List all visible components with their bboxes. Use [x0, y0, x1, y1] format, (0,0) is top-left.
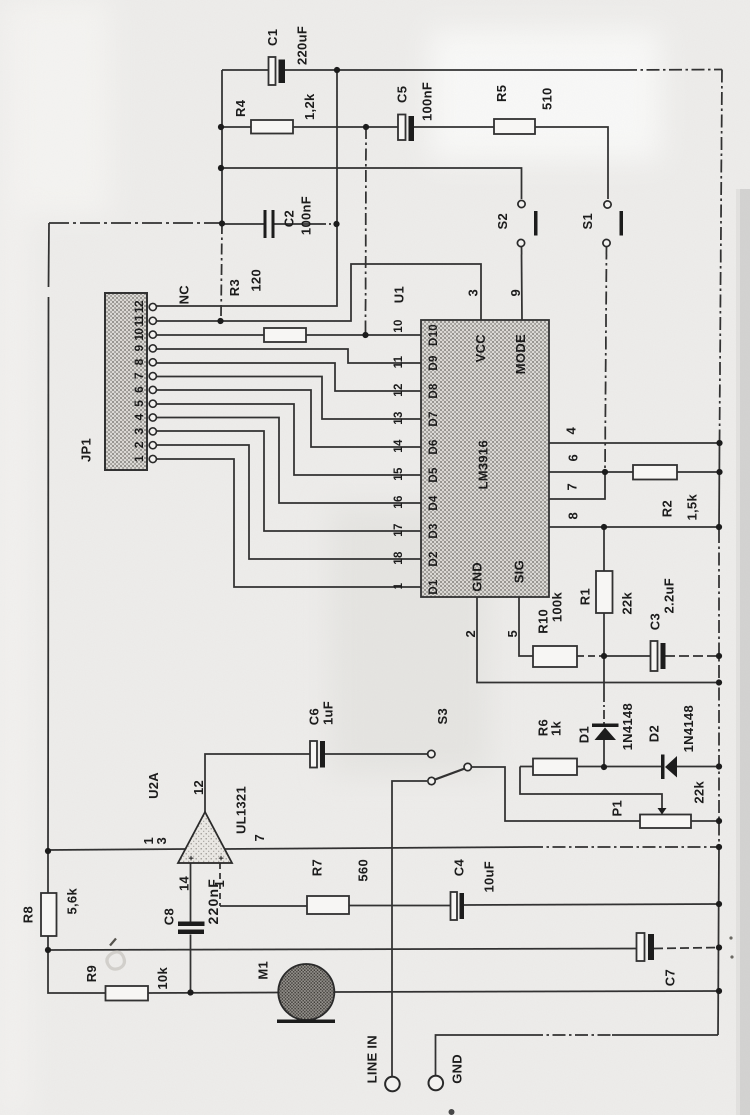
svg-text:S1: S1 — [580, 213, 595, 230]
resistor R8 vertical — [41, 893, 57, 936]
wire U1 pin6 row right of R2 — [677, 471, 720, 473]
wire P1 right to bus — [691, 820, 719, 822]
wire rail2 (portrait y=168) to S2 riser — [222, 168, 522, 199]
wire GND terminal riser and bottom rail — [436, 1035, 531, 1076]
svg-text:2: 2 — [132, 441, 146, 448]
wire top rail chain part to corner — [624, 69, 722, 72]
svg-text:D10: D10 — [428, 324, 440, 346]
wire net y=950 to C7 — [48, 949, 637, 951]
svg-text:4: 4 — [132, 414, 146, 421]
JP1 pin 8 circle — [149, 359, 156, 366]
svg-text:NC: NC — [177, 285, 192, 305]
capacitor C7 plate solid — [648, 934, 654, 960]
junction dot (190.5,992.5) — [187, 989, 193, 995]
wire U1 pin8 row — [549, 526, 719, 528]
svg-text:17: 17 — [393, 523, 405, 536]
capacitor C2 plate b — [272, 210, 275, 238]
wire junction down to R9 row — [48, 950, 105, 993]
svg-text:VCC: VCC — [473, 334, 488, 363]
svg-text:1uF: 1uF — [321, 701, 336, 725]
wire U1 pin6 row left of R2 — [549, 471, 633, 473]
wire opamp pin14 stub to C8 — [190, 863, 192, 922]
capacitor C2 plate a — [264, 210, 267, 238]
svg-text:D3: D3 — [428, 523, 440, 538]
resistor R2 — [633, 465, 677, 480]
svg-text:D4: D4 — [428, 495, 440, 511]
soft shadow patch center — [330, 505, 490, 775]
svg-text:GND: GND — [470, 562, 485, 592]
connector JP1 body — [105, 293, 147, 470]
wire R9 to C8 node to microphone — [148, 992, 278, 995]
scan artifact bottom fleck — [449, 1109, 455, 1115]
wire net y=848 left segment (opamp inputs 1/3) — [48, 849, 186, 850]
svg-text:+: + — [216, 855, 226, 861]
capacitor C5 plate — [398, 115, 406, 141]
wire right bus solid lower — [718, 845, 719, 1035]
svg-text:100nF: 100nF — [299, 196, 314, 235]
svg-text:1N4148: 1N4148 — [620, 703, 635, 750]
svg-text:560: 560 — [356, 859, 371, 882]
bright left margin of portrait page — [0, 0, 26, 1115]
svg-text:15: 15 — [393, 467, 405, 481]
capacitor C8 plate b — [178, 930, 204, 935]
svg-text:2: 2 — [463, 630, 478, 638]
svg-text:1: 1 — [132, 455, 146, 462]
svg-text:220nF: 220nF — [205, 878, 221, 924]
svg-text:1N4148: 1N4148 — [681, 705, 696, 752]
wire R6 to D2 node — [577, 766, 662, 768]
wire R8 bottom to junction — [47, 936, 49, 950]
svg-text:100nF: 100nF — [420, 82, 435, 121]
svg-text:3: 3 — [466, 289, 481, 297]
svg-text:C5: C5 — [395, 86, 410, 103]
junction dot (719,904) — [716, 901, 722, 907]
capacitor C8 plate a — [178, 922, 205, 927]
scan artifact speck b — [730, 955, 733, 958]
svg-text:7: 7 — [252, 834, 267, 842]
svg-text:1k: 1k — [549, 721, 564, 737]
svg-text:14: 14 — [177, 876, 192, 892]
wire R10 to R1 node dashed — [577, 655, 604, 657]
junction dot (337,70) — [334, 67, 340, 73]
svg-text:10: 10 — [393, 319, 405, 332]
svg-text:C3: C3 — [648, 613, 663, 630]
svg-text:LM3916: LM3916 — [476, 440, 491, 490]
svg-text:6: 6 — [566, 454, 581, 462]
wire JP1 pin11 to U1 pin3 (VCC) — [156, 264, 481, 321]
bright margin top-left of portrait page — [0, 0, 110, 215]
wire microphone right to bus — [334, 991, 719, 992]
svg-text:1: 1 — [393, 582, 405, 589]
wire left border R8 top segment — [47, 851, 49, 893]
diode D1 cathode bar — [592, 724, 619, 728]
junction dot (221,168) — [218, 165, 224, 171]
junction dot (220.5,321) — [217, 318, 223, 324]
svg-text:R5: R5 — [494, 85, 509, 102]
junction dot (719,656) — [716, 653, 722, 659]
junction dot (366,127) — [363, 124, 369, 130]
junction dot (719,821) — [716, 818, 722, 824]
JP1 pin 2 circle — [149, 442, 156, 449]
svg-text:C7: C7 — [663, 969, 678, 986]
IC U1 LM3916 body — [421, 320, 549, 597]
svg-text:C8: C8 — [162, 908, 177, 925]
svg-text:R2: R2 — [660, 500, 675, 517]
wire vertical x=222 top — [221, 70, 223, 223]
potentiometer P1 wiper arrow — [658, 808, 667, 815]
svg-text:3: 3 — [154, 837, 169, 845]
svg-text:10: 10 — [132, 328, 146, 341]
wire S3 throw B to P1 left — [472, 767, 640, 821]
wire R6 left stub — [520, 766, 533, 768]
junction dot (222,223.5) — [219, 220, 225, 226]
resistor R7 — [307, 896, 349, 914]
diode D1 triangle — [595, 728, 617, 741]
svg-text:R9: R9 — [84, 965, 99, 982]
svg-text:S3: S3 — [435, 708, 450, 725]
resistor R4 — [251, 120, 293, 134]
junction dot (605,472) — [602, 469, 608, 475]
junction dot (221,127) — [218, 124, 224, 130]
wire JP1 pin3 to U1 pin17 — [156, 431, 421, 531]
svg-text:R10: R10 — [536, 609, 551, 634]
JP1 pin 5 circle — [149, 400, 156, 407]
svg-text:U2A: U2A — [146, 772, 161, 799]
bright area top-right of portrait page — [430, 30, 660, 160]
terminal GND circle — [429, 1076, 444, 1091]
capacitor C3 plate — [651, 641, 658, 671]
svg-text:C2: C2 — [282, 210, 297, 227]
wire node to C3 — [604, 655, 651, 657]
wire top rail (portrait y=70) left of C1 — [222, 69, 268, 71]
JP1 pin 9 circle — [149, 345, 156, 352]
wire R6-left jog down to P1 wiper — [520, 767, 662, 809]
switch S2 contact b — [517, 239, 524, 246]
wire D1 branch lower — [603, 740, 605, 767]
junction dot (719,847) — [716, 844, 722, 850]
capacitor C5 plate solid — [409, 116, 415, 141]
wire C6 to S3 common — [325, 753, 427, 755]
wire net y=848 chain segment to bus — [530, 846, 719, 848]
wire C2 row y=224 — [222, 223, 264, 225]
svg-text:R7: R7 — [310, 859, 325, 876]
junction dot (719,947.5) — [716, 944, 722, 950]
wire JP1 pin5 to U1 pin15 — [156, 404, 421, 475]
svg-text:D5: D5 — [428, 467, 440, 483]
JP1 pin 6 circle — [149, 386, 156, 393]
svg-text:510: 510 — [540, 87, 555, 110]
svg-text:R8: R8 — [21, 906, 36, 923]
junction dot (719.5,472) — [716, 469, 722, 475]
wire C8 bottom to R9 row — [190, 935, 192, 993]
svg-text:4: 4 — [564, 427, 579, 435]
JP1 pin 1 circle — [149, 455, 156, 462]
wire bottom rail right part to bus corner — [612, 1034, 718, 1036]
wire JP1 pin4 to U1 pin16 — [156, 418, 421, 504]
junction dot (719,766.5) — [716, 763, 722, 769]
wire chain S1 to node pin6/7 — [605, 247, 607, 473]
junction dot (719,527) — [716, 524, 722, 530]
capacitor C6 plate+ — [310, 741, 317, 768]
JP1 pin 3 circle — [149, 428, 156, 435]
junction dot (604,767) — [601, 764, 607, 770]
wire U1 pin7 jog up to pin6 node — [549, 472, 605, 499]
scan artifact tick — [110, 939, 116, 946]
junction dot (48,851) — [45, 848, 51, 854]
svg-text:100k: 100k — [550, 592, 565, 623]
svg-text:D9: D9 — [428, 355, 440, 370]
junction dot (48,950) — [45, 947, 51, 953]
scan artifact squiggle — [107, 952, 125, 969]
JP1 pin 7 circle — [149, 372, 156, 379]
svg-text:5: 5 — [132, 400, 146, 407]
wire U1 pin2 GND down and right to bus — [477, 597, 719, 683]
resistor R6 — [533, 759, 577, 776]
svg-text:1,2k: 1,2k — [302, 93, 317, 120]
microphone M1 base bar — [277, 1020, 335, 1024]
svg-text:8: 8 — [132, 358, 146, 365]
capacitor C4 plate — [451, 892, 458, 920]
svg-text:16: 16 — [393, 495, 405, 508]
svg-text:10k: 10k — [155, 967, 170, 990]
wire chain horizontal y=223 from left border corner — [49, 222, 222, 224]
svg-text:D2: D2 — [647, 725, 662, 742]
svg-text:14: 14 — [393, 439, 405, 453]
svg-text:D6: D6 — [428, 439, 440, 454]
switch S1 contact b — [603, 239, 610, 246]
svg-text:MODE: MODE — [513, 334, 528, 374]
wire pin1 row to R7 — [220, 905, 307, 907]
scan artifact speck a — [729, 936, 732, 939]
svg-text:9: 9 — [132, 344, 146, 351]
svg-text:UL1321: UL1321 — [234, 786, 249, 834]
wire JP1 pin6 to U1 pin14 — [156, 390, 421, 447]
wire top rail right of C1 solid part — [285, 69, 624, 71]
junction dot (719,991) — [716, 988, 722, 994]
capacitor C3 plate solid — [661, 643, 666, 669]
switch S1 actuator bar — [620, 211, 624, 236]
capacitor C1 plate- solid — [279, 60, 286, 84]
resistor R9 — [106, 986, 149, 1001]
switch S2 actuator bar — [534, 211, 538, 236]
wire R1 branch lower — [603, 613, 605, 656]
terminal LINE IN circle — [385, 1077, 400, 1092]
svg-text:220uF: 220uF — [295, 26, 310, 65]
JP1 pin 4 circle — [149, 414, 156, 421]
svg-text:D8: D8 — [428, 383, 440, 399]
wire C3 to bus — [665, 655, 719, 657]
wire left border vertical x=48 — [48, 223, 51, 287]
wire NC riser x=337 from top rail to JP1 pin12 — [156, 70, 337, 306]
svg-text:+: + — [186, 855, 196, 861]
svg-text:5,6k: 5,6k — [65, 888, 80, 915]
switch S3 lever — [435, 769, 464, 780]
wire chain x=366 from R4 row to R3 row — [365, 127, 368, 335]
svg-text:D2: D2 — [428, 551, 440, 566]
svg-text:SIG: SIG — [512, 560, 527, 583]
wire C7 to bus dashed — [654, 948, 719, 949]
junction dot (336.5,224) — [333, 221, 339, 227]
wire D1 branch upper — [603, 656, 605, 693]
svg-text:9: 9 — [508, 289, 523, 297]
junction dot (604,527) — [601, 524, 607, 530]
svg-text:C1: C1 — [265, 29, 280, 46]
svg-text:P1: P1 — [610, 800, 625, 817]
wire between C5 and R5 — [414, 126, 494, 128]
svg-text:11: 11 — [132, 314, 146, 326]
svg-text:12: 12 — [132, 300, 146, 313]
svg-text:U1: U1 — [392, 286, 407, 303]
wire right bus chain upper (portrait x=722..719) — [720, 70, 723, 444]
diode D2 triangle — [665, 756, 677, 778]
JP1 pin 10 circle — [149, 331, 156, 338]
wire JP1 pin7 to U1 pin13 — [156, 377, 421, 420]
svg-text:12: 12 — [191, 780, 206, 795]
svg-text:2.2uF: 2.2uF — [662, 578, 677, 613]
wire R1 branch upper — [603, 527, 605, 571]
wire S3 throw C to LINE IN terminal — [392, 781, 427, 1076]
junction dot (719,682.5) — [716, 679, 722, 685]
svg-text:S2: S2 — [495, 213, 510, 230]
svg-text:M1: M1 — [256, 961, 271, 980]
wire opamp pin1 stub dashed — [219, 863, 221, 906]
svg-text:7: 7 — [565, 483, 580, 491]
capacitor C4 plate solid — [460, 893, 465, 919]
resistor R3 — [264, 328, 306, 342]
op-amp U2A triangle — [178, 812, 232, 863]
svg-text:D1: D1 — [577, 726, 592, 743]
svg-text:12: 12 — [393, 383, 405, 396]
diode D2 cathode bar — [661, 755, 665, 780]
wire U1 pin5 SIG to R10 — [519, 597, 533, 656]
wire S2 to U1 pin9 (MODE) — [521, 247, 524, 321]
wire bottom rail chain part — [530, 1034, 612, 1036]
wire C2 row chain to riser junction — [318, 223, 337, 225]
potentiometer P1 body — [640, 815, 691, 829]
JP1 pin 11 circle — [149, 317, 156, 324]
wire right bus chain mid — [718, 530, 720, 845]
svg-text:JP1: JP1 — [79, 438, 94, 462]
microphone M1 body — [278, 964, 334, 1020]
svg-text:3: 3 — [132, 427, 146, 434]
svg-text:18: 18 — [393, 551, 405, 565]
svg-text:10uF: 10uF — [482, 861, 497, 893]
switch S3 throw B contact — [464, 763, 471, 770]
svg-text:8: 8 — [566, 512, 581, 520]
capacitor C6 plate- solid — [320, 741, 325, 768]
resistor R1 vertical — [596, 571, 613, 613]
svg-text:7: 7 — [132, 372, 146, 379]
svg-text:13: 13 — [393, 411, 405, 424]
junction dot (719.5,443) — [716, 440, 722, 446]
wire R4-C5-R5 row (portrait y=127) left segment — [222, 126, 251, 128]
wire U1 pin4 row — [549, 442, 720, 444]
JP1 pin 12 circle — [149, 303, 156, 310]
switch S3 common contact — [428, 750, 435, 757]
wire D2 to bus — [677, 766, 719, 768]
wire net y=848 pin7 segment — [224, 847, 530, 849]
wire right bus solid mid — [718, 443, 721, 530]
wire JP1 pin1 to U1 pin1 — [156, 459, 421, 587]
capacitor C7 plate — [637, 933, 645, 961]
svg-text:6: 6 — [132, 386, 146, 393]
wire JP1 pin8 to U1 pin12 — [156, 363, 421, 391]
svg-text:R3: R3 — [227, 279, 242, 296]
junction dot (365.5,335) — [362, 332, 368, 338]
svg-text:D7: D7 — [428, 411, 440, 426]
svg-text:120: 120 — [249, 269, 264, 292]
junction dot (604,656) — [601, 653, 607, 659]
svg-text:1,5k: 1,5k — [685, 494, 700, 521]
capacitor C1 plate+ — [269, 57, 276, 85]
svg-text:R1: R1 — [578, 588, 593, 605]
svg-text:GND: GND — [450, 1054, 465, 1084]
wire R7 to C4 — [349, 905, 451, 907]
svg-text:5: 5 — [505, 630, 520, 638]
wire between R4 and C5 — [293, 126, 398, 128]
svg-text:C4: C4 — [452, 859, 467, 877]
switch S2 contact a — [518, 200, 525, 207]
svg-text:11: 11 — [393, 355, 405, 368]
wire JP1 pin2 to U1 pin18 — [156, 445, 421, 559]
resistor R10 — [533, 646, 577, 667]
wire R5 to S1 riser corner — [535, 127, 608, 199]
svg-text:R4: R4 — [233, 99, 248, 117]
switch S3 throw C contact — [428, 777, 435, 784]
wire vertical x=222 chain lower — [221, 223, 222, 321]
wire JP1 pin9 to U1 pin11 — [156, 349, 421, 363]
wire opamp output to C6 — [205, 754, 310, 812]
wire JP1 pin10 through R3 to U1 pin10 — [156, 334, 264, 336]
scan shadow right edge of portrait page — [740, 189, 750, 1115]
wire C4 to bus — [464, 904, 719, 905]
switch S1 contact a — [604, 201, 611, 208]
svg-text:D1: D1 — [428, 579, 440, 595]
svg-text:22k: 22k — [692, 781, 707, 804]
svg-text:22k: 22k — [620, 592, 635, 615]
svg-text:LINE IN: LINE IN — [365, 1035, 380, 1083]
resistor R5 — [494, 119, 535, 134]
svg-text:C6: C6 — [307, 708, 322, 725]
